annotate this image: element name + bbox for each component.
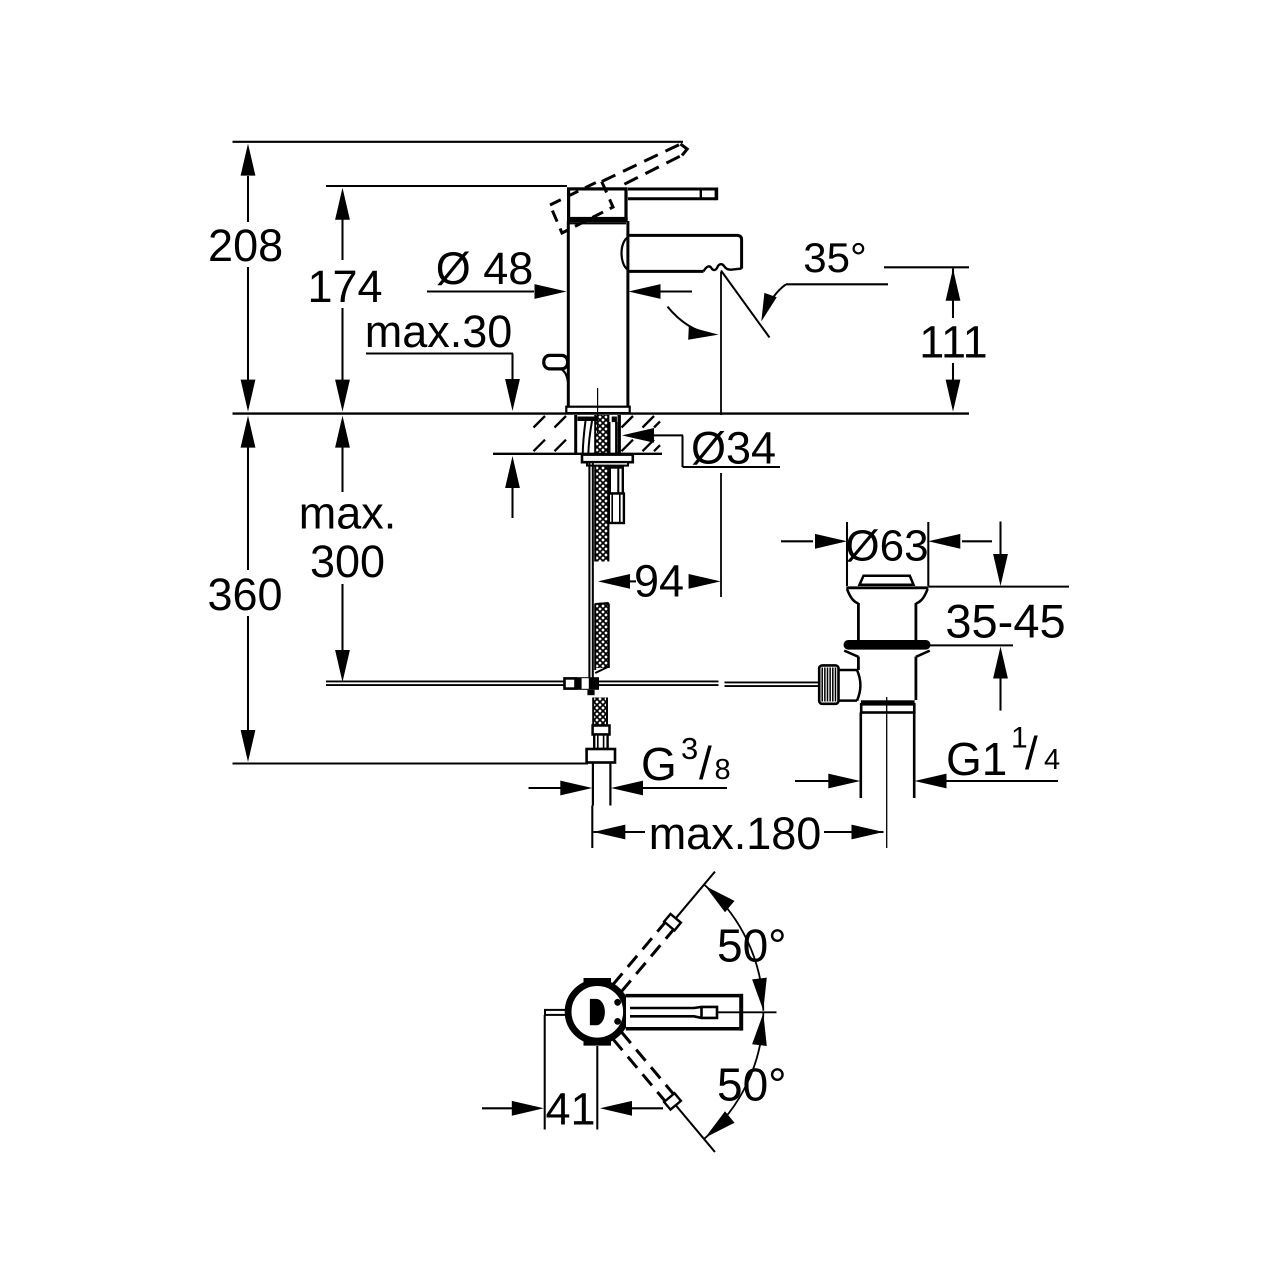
drain tailpipe (859, 713, 862, 799)
spout outlet reference line (720, 272, 722, 415)
top view faucet body circle (568, 983, 626, 1041)
hose elbow top bar (578, 417, 598, 422)
svg-text:94: 94 (634, 556, 684, 607)
extension line bottom of supply hose (360 ref) (233, 762, 589, 764)
svg-text:Ø 48: Ø 48 (436, 243, 534, 294)
svg-text:4: 4 (1044, 744, 1060, 776)
drain side port (839, 669, 857, 672)
dashed handle position upper (50deg) (613, 922, 665, 984)
drain flange top (846, 586, 928, 589)
deck hatching right (622, 416, 634, 428)
svg-text:max.30: max.30 (365, 306, 513, 357)
svg-text:8: 8 (715, 754, 731, 786)
handle inner slot (630, 1007, 717, 1018)
mounting washer (582, 455, 633, 463)
inner stud lines in shank (608, 422, 611, 454)
small block right of braid (612, 417, 617, 423)
svg-text:G: G (641, 738, 677, 790)
rod clevis block (576, 677, 600, 690)
dashed cap outline (raised position) (550, 180, 613, 233)
drain push button (860, 576, 914, 585)
svg-text:Ø34: Ø34 (691, 423, 776, 474)
top view cap flats (584, 978, 612, 984)
drain upper body (857, 603, 860, 640)
cartridge stem D-shape (590, 999, 604, 1024)
dimension max.300 line (341, 447, 343, 492)
spout stub mark left (545, 1010, 567, 1015)
dimension Ø34 leader (622, 428, 654, 443)
deck bottom line (493, 453, 662, 455)
35deg leader curve with arrow (764, 284, 787, 316)
svg-text:174: 174 (307, 261, 382, 312)
svg-text:111: 111 (919, 317, 987, 368)
svg-text:/: / (699, 737, 712, 789)
drain flange neck (847, 589, 858, 604)
dimension 41 arrows (482, 1107, 516, 1109)
svg-text:Ø63: Ø63 (845, 522, 928, 571)
stud fixing nut (609, 494, 624, 524)
35deg reference lines (884, 266, 969, 268)
svg-text:208: 208 (208, 220, 283, 271)
hose union nut (587, 749, 615, 763)
hose end hex fitting (593, 726, 610, 735)
pop-up rod right segment (599, 680, 719, 682)
50deg angle arc upper (704, 885, 763, 1011)
extension line top of cap (174 ref) (326, 185, 567, 187)
knurled adjuster nut (819, 665, 838, 703)
threaded mounting stud (610, 468, 623, 494)
dimension max.180 line (591, 806, 593, 849)
svg-text:/: / (1025, 727, 1038, 779)
extension line from circle centre (596, 1046, 598, 1130)
clevis lower tab (587, 690, 594, 695)
faucet body left edge (567, 221, 570, 407)
drain slip nut (861, 704, 914, 712)
spout outline (628, 235, 742, 268)
top view handle outline (626, 994, 743, 1031)
dimension G3/8 arrows (529, 787, 563, 789)
50deg angle arc lower (704, 1013, 763, 1139)
water stream direction line (721, 271, 770, 338)
pop-up rod left segment (326, 680, 565, 682)
extension line from stub (544, 1015, 546, 1130)
drain Ø63 extension lines (846, 522, 848, 586)
svg-text:max.: max. (299, 488, 397, 539)
faucet centre line (597, 388, 599, 433)
solid lever bar (628, 188, 717, 191)
svg-text:max.180: max.180 (649, 808, 822, 859)
dimension max.30 leader (366, 352, 513, 354)
svg-text:35°: 35° (803, 234, 867, 281)
deck hatching left (534, 416, 546, 428)
dimension max.30 lower arrow (505, 456, 520, 488)
dimension 360 line (247, 447, 249, 570)
dimension Ø48 leader and arrows (427, 290, 534, 292)
pull rod vertical (588, 463, 590, 678)
top view handle right edge (739, 994, 743, 1031)
drain lower body (857, 657, 860, 671)
spout aerator squiggle (704, 264, 742, 271)
body top joint line (569, 222, 627, 224)
svg-text:G1: G1 (946, 733, 1007, 785)
extension line top of raised lever (208 ref) (233, 141, 684, 143)
dimension G1 1/4 arrows (795, 780, 830, 782)
dimension 35-45 lines (928, 586, 1069, 588)
pull-rod knob on body (544, 355, 568, 369)
faucet cap (cartridge head) (569, 189, 626, 219)
faucet base flange (566, 407, 629, 413)
shank hole left wall (574, 415, 577, 454)
spout joint arc (622, 238, 628, 270)
hose bend lines in shank (583, 421, 586, 454)
dimension 174 line (341, 219, 343, 260)
drain body bottom band (861, 700, 915, 704)
svg-text:300: 300 (310, 536, 385, 587)
svg-text:50°: 50° (717, 920, 787, 972)
dimension Ø63 arrows (781, 540, 813, 542)
rod end cap (565, 678, 576, 688)
mounting deck top line (233, 412, 970, 414)
shank hole right wall (618, 415, 621, 454)
drain under-seal flare (844, 651, 858, 657)
svg-text:360: 360 (207, 569, 282, 620)
dimension 208 line (247, 176, 249, 222)
handle centre line (717, 1011, 777, 1013)
dimension 94 arrows (598, 574, 630, 589)
svg-text:3: 3 (681, 731, 698, 766)
pop-up rod segment after break (725, 681, 820, 683)
svg-text:41: 41 (545, 1083, 595, 1134)
screw dots (614, 999, 621, 1006)
dimension 111 line (952, 269, 954, 319)
svg-text:35-45: 35-45 (945, 595, 1065, 648)
svg-text:50°: 50° (717, 1059, 787, 1111)
35deg angle arc with arrow (668, 307, 713, 335)
drain rubber seal ring (844, 640, 931, 650)
braided hose upper segment (595, 415, 608, 562)
drain centre line (886, 697, 888, 848)
braided hose middle segment (595, 604, 609, 669)
hose end tube (594, 735, 607, 750)
faucet body right edge (626, 221, 629, 407)
G3/8 connection pipe (592, 763, 594, 806)
dashed raised lever (602, 144, 681, 182)
braided hose lower segment (593, 698, 607, 726)
